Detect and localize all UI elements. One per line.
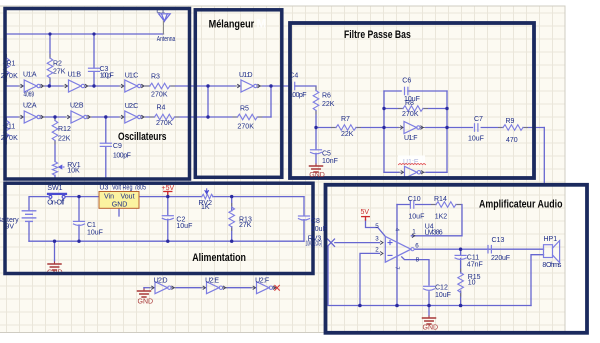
svg-text:1K2: 1K2 [435, 213, 448, 220]
svg-text:GND: GND [112, 202, 128, 209]
svg-text:22K: 22K [322, 101, 335, 108]
svg-text:C12: C12 [435, 284, 448, 291]
svg-text:Filtre Passe Bas: Filtre Passe Bas [344, 29, 411, 41]
svg-text:C5: C5 [322, 150, 331, 157]
svg-text:5V: 5V [361, 209, 370, 216]
svg-text:47nF: 47nF [467, 262, 483, 269]
svg-text:4069: 4069 [24, 92, 35, 99]
svg-text:4: 4 [394, 228, 400, 231]
svg-text:1: 1 [412, 229, 416, 236]
svg-text:270K: 270K [402, 111, 419, 118]
svg-text:100pF: 100pF [113, 153, 131, 160]
svg-text:C11: C11 [467, 254, 479, 261]
svg-text:U2:C: U2:C [125, 103, 139, 110]
svg-text:Antenna: Antenna [157, 36, 176, 43]
svg-text:10uF: 10uF [435, 292, 451, 299]
svg-text:Alimentation: Alimentation [192, 252, 246, 264]
svg-text:GND: GND [138, 299, 154, 306]
svg-text:Oscillateurs: Oscillateurs [118, 131, 167, 143]
svg-text:R6: R6 [322, 93, 331, 100]
svg-text:C13: C13 [492, 237, 505, 244]
svg-text:C1: C1 [87, 222, 96, 229]
svg-text:R4: R4 [157, 104, 166, 111]
svg-text:270K: 270K [156, 120, 173, 127]
svg-text:10uF: 10uF [87, 229, 103, 236]
svg-text:3: 3 [375, 235, 379, 242]
svg-text:U2:B: U2:B [70, 103, 84, 110]
svg-text:10uF: 10uF [408, 213, 424, 220]
svg-text:7: 7 [394, 267, 400, 270]
svg-text:2: 2 [375, 246, 379, 253]
svg-text:M: M [257, 19, 267, 31]
svg-text:On-Off: On-Off [47, 200, 64, 207]
svg-text:R2: R2 [53, 61, 62, 68]
svg-text:C9: C9 [113, 143, 122, 150]
svg-text:C10: C10 [408, 196, 421, 203]
svg-text:GND: GND [309, 172, 325, 179]
svg-text:U1:B: U1:B [68, 72, 82, 79]
svg-text:1K: 1K [201, 204, 210, 211]
svg-text:10nF: 10nF [322, 158, 338, 165]
svg-text:27K: 27K [53, 68, 66, 75]
svg-text:R14: R14 [434, 196, 447, 203]
svg-text:10uF: 10uF [311, 226, 327, 233]
svg-text:C7: C7 [474, 116, 483, 123]
svg-text:R9: R9 [506, 118, 515, 125]
svg-text:U1:D: U1:D [239, 72, 253, 79]
svg-text:R12: R12 [58, 126, 71, 133]
svg-text:10uF: 10uF [468, 136, 484, 143]
svg-text:10K: 10K [67, 168, 80, 175]
svg-text:HP1: HP1 [544, 236, 558, 243]
svg-text:U1:C: U1:C [125, 72, 139, 79]
svg-text:10K (LOG): 10K (LOG) [306, 241, 323, 248]
svg-text:Volt Reg 7805: Volt Reg 7805 [112, 184, 146, 191]
svg-text:U2:A: U2:A [23, 103, 37, 110]
svg-text:R5: R5 [240, 106, 249, 113]
svg-text:R7: R7 [341, 116, 350, 123]
svg-text:R8: R8 [405, 100, 414, 107]
svg-text:220uF: 220uF [491, 255, 510, 262]
svg-text:8 Ohms: 8 Ohms [542, 262, 562, 269]
svg-text:U1:F: U1:F [404, 135, 418, 142]
svg-text:C8: C8 [311, 218, 320, 225]
svg-text:U2:E: U2:E [205, 277, 219, 284]
svg-text:SW1: SW1 [47, 185, 62, 192]
svg-text:100pF: 100pF [100, 73, 114, 80]
svg-text:270K: 270K [237, 123, 254, 130]
svg-text:Vin: Vin [104, 193, 114, 200]
svg-text:R3: R3 [151, 73, 160, 80]
svg-text:5: 5 [375, 223, 379, 230]
svg-text:22K: 22K [341, 131, 354, 138]
svg-text:LM386: LM386 [425, 229, 443, 236]
svg-text:10: 10 [468, 280, 476, 287]
svg-text:C6: C6 [402, 77, 411, 84]
svg-text:8: 8 [416, 257, 420, 264]
svg-text:+5V: +5V [162, 185, 175, 192]
svg-text:R1: R1 [7, 60, 16, 67]
svg-text:U1:A: U1:A [23, 72, 37, 79]
svg-text:10uF: 10uF [176, 223, 192, 230]
svg-text:27K: 27K [239, 222, 252, 229]
svg-text:GND: GND [423, 325, 439, 332]
svg-text:Amplificateur Audio: Amplificateur Audio [479, 198, 563, 210]
svg-text:U3: U3 [99, 184, 108, 191]
svg-text:9V: 9V [6, 224, 15, 231]
svg-text:270K: 270K [151, 91, 168, 98]
svg-text:U2:F: U2:F [255, 277, 269, 284]
svg-text:470: 470 [506, 137, 518, 144]
svg-text:22K: 22K [58, 136, 71, 143]
svg-text:U2:D: U2:D [154, 277, 168, 284]
svg-text:Mélangeur: Mélangeur [209, 19, 255, 31]
svg-text:Vout: Vout [121, 193, 135, 200]
svg-text:6: 6 [415, 243, 419, 250]
